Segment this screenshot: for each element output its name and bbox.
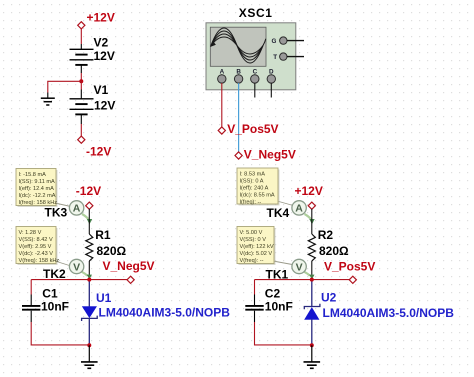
- svg-text:+12V: +12V: [87, 11, 115, 25]
- svg-text:I: -15.8 mA: I: -15.8 mA: [19, 172, 47, 178]
- svg-text:V(dc): -2.43 V: V(dc): -2.43 V: [19, 251, 54, 257]
- svg-text:LM4040AIM3-5.0/NOPB: LM4040AIM3-5.0/NOPB: [323, 306, 455, 320]
- svg-text:V: V: [296, 261, 303, 273]
- ground (left branch): [81, 345, 98, 368]
- svg-text:V(eff): 122 kV: V(eff): 122 kV: [240, 244, 274, 250]
- node +12V (top supply diamond label): [78, 11, 115, 29]
- svg-text:-12V: -12V: [86, 145, 111, 159]
- resistor R2: [308, 228, 349, 261]
- svg-text:V_Neg5V: V_Neg5V: [244, 147, 296, 161]
- node V_Pos5V (scope lead): [218, 122, 278, 136]
- svg-text:I(eff): 240 A: I(eff): 240 A: [240, 186, 269, 192]
- capacitor C2: [245, 287, 293, 323]
- svg-text:V(eff): 2.95 V: V(eff): 2.95 V: [19, 244, 52, 250]
- svg-text:V(freq): --: V(freq): --: [240, 258, 264, 264]
- node left junction R1/C1/U1: [87, 278, 91, 282]
- wire -12V to R1: [88, 209, 90, 234]
- svg-text:820Ω: 820Ω: [319, 244, 349, 258]
- svg-text:820Ω: 820Ω: [97, 244, 127, 258]
- svg-text:R2: R2: [318, 228, 334, 242]
- wire scope channel C stub: [254, 83, 256, 97]
- ground (supply midpoint): [41, 93, 55, 106]
- svg-text:U2: U2: [321, 291, 337, 305]
- svg-text:V(freq): 158 kHz: V(freq): 158 kHz: [19, 258, 60, 264]
- svg-text:I(dc): -12.2 mA: I(dc): -12.2 mA: [19, 193, 56, 199]
- svg-text:T: T: [273, 54, 277, 61]
- node right junction R2/C2/U2: [310, 278, 314, 282]
- probe readout TK1 (voltage box): [237, 227, 295, 266]
- svg-text:10nF: 10nF: [41, 300, 69, 314]
- wire junction to ground: [48, 81, 82, 92]
- ground (right branch): [304, 345, 321, 368]
- svg-text:I: 8.53 mA: I: 8.53 mA: [240, 172, 266, 178]
- svg-text:V: 1.28 V: V: 1.28 V: [19, 230, 42, 236]
- svg-text:V: 5.00 V: V: 5.00 V: [240, 230, 263, 236]
- svg-text:10nF: 10nF: [265, 300, 293, 314]
- probe TK4 (ammeter): [267, 201, 315, 225]
- wire scope channel D stub: [270, 83, 272, 97]
- wire +12V to R2: [311, 209, 313, 234]
- svg-text:C1: C1: [42, 287, 58, 301]
- node right bottom junction: [310, 343, 314, 347]
- svg-text:V_Neg5V: V_Neg5V: [103, 259, 155, 273]
- node +12V (right branch diamond): [295, 184, 323, 209]
- transistor U1 (LM4040 shunt reference diode): [82, 282, 231, 346]
- svg-text:A: A: [295, 203, 303, 215]
- svg-text:C2: C2: [265, 287, 281, 301]
- node -12V (bottom supply diamond label): [78, 136, 112, 158]
- svg-text:+12V: +12V: [295, 184, 323, 198]
- node V_Neg5V (scope lead): [235, 147, 296, 161]
- wire +12V diamond to V2: [80, 28, 82, 44]
- wire scope channel A to V_Pos5V: [221, 83, 223, 127]
- svg-text:12V: 12V: [94, 49, 115, 63]
- svg-text:TK4: TK4: [267, 206, 290, 220]
- svg-text:V: V: [73, 261, 80, 273]
- wire right output net: [255, 279, 350, 281]
- svg-text:U1: U1: [96, 291, 112, 305]
- wire left output net: [31, 279, 127, 281]
- svg-text:TK2: TK2: [43, 267, 66, 281]
- wire to C2: [254, 280, 256, 295]
- resistor R1: [86, 228, 127, 261]
- svg-text:A: A: [73, 203, 81, 215]
- svg-text:LM4040AIM3-5.0/NOPB: LM4040AIM3-5.0/NOPB: [99, 306, 231, 320]
- svg-text:V_Pos5V: V_Pos5V: [227, 122, 278, 136]
- svg-text:I(eff): 12.4 mA: I(eff): 12.4 mA: [19, 186, 55, 192]
- svg-text:V(dc): 5.02 V: V(dc): 5.02 V: [240, 251, 273, 257]
- probe TK1 (voltmeter): [266, 259, 315, 281]
- svg-text:I(freq): --: I(freq): --: [240, 199, 262, 205]
- node left bottom junction: [87, 343, 91, 347]
- battery V2: [70, 36, 115, 74]
- wire R2 to junction: [311, 261, 313, 280]
- svg-text:V(SS): 8.42 V: V(SS): 8.42 V: [19, 237, 53, 243]
- capacitor C1: [22, 287, 69, 323]
- probe TK3 (ammeter): [45, 201, 93, 225]
- svg-text:TK3: TK3: [45, 206, 68, 220]
- node -12V (left branch diamond): [76, 184, 101, 209]
- probe readout TK4 (current box): [237, 168, 295, 206]
- node V_Pos5V (right branch): [324, 259, 375, 283]
- svg-text:-12V: -12V: [76, 184, 101, 198]
- probe readout TK2 (voltage box): [16, 227, 71, 267]
- svg-text:V1: V1: [94, 83, 109, 97]
- svg-text:I(SS): 9.11 mA: I(SS): 9.11 mA: [19, 179, 56, 185]
- svg-text:V2: V2: [94, 36, 109, 50]
- wire V1 to -12V diamond: [80, 124, 82, 137]
- svg-text:V(SS): 0 V: V(SS): 0 V: [240, 237, 267, 243]
- svg-text:G: G: [272, 38, 277, 45]
- wire C1 to bottom rail: [31, 322, 89, 345]
- wire C2 to bottom rail: [255, 322, 312, 345]
- battery V1: [70, 81, 116, 124]
- svg-text:12V: 12V: [94, 98, 115, 112]
- wire R1 to junction: [88, 261, 90, 280]
- wire scope channel B to V_Neg5V (blue): [238, 83, 240, 152]
- svg-text:V_Pos5V: V_Pos5V: [324, 259, 375, 273]
- node V_Neg5V (left branch): [103, 259, 155, 283]
- transistor U2 (LM4040 shunt reference diode): [304, 282, 454, 346]
- node mid-supply junction: [79, 79, 83, 83]
- svg-text:I(SS): 0 A: I(SS): 0 A: [240, 179, 264, 185]
- probe TK2 (voltmeter): [43, 259, 92, 281]
- wire V2 to mid junction: [80, 73, 82, 81]
- svg-text:XSC1: XSC1: [239, 6, 273, 20]
- op-amp XSC1 (oscilloscope instrument): [206, 6, 304, 90]
- svg-text:I(dc): 8.55 mA: I(dc): 8.55 mA: [240, 192, 275, 198]
- probe readout TK3 (current box): [16, 169, 73, 208]
- svg-text:R1: R1: [95, 228, 111, 242]
- wire to C1: [30, 280, 32, 295]
